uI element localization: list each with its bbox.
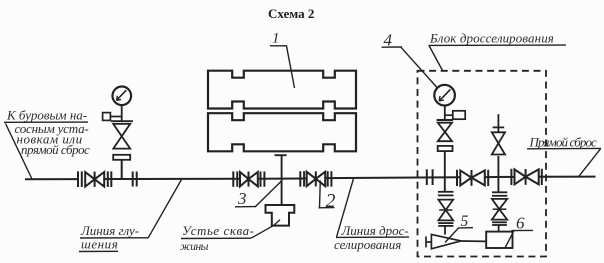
underline of label 6 (512, 229, 534, 231)
wire: kill line left segment (25, 178, 78, 180)
underline of Линия дрос- (336, 236, 409, 238)
label text: К буровым насосным установкам или прямой сброс (6, 107, 90, 157)
svg-text:прямой сброс: прямой сброс (21, 142, 90, 157)
pressure gauge (block) (434, 85, 455, 106)
svg-text:шения: шения (81, 237, 118, 252)
leader from label 2 to valve (319, 181, 322, 208)
underline of label 2 (319, 207, 335, 209)
dashed block boundary (блок дросселирования) (418, 71, 547, 257)
underline of Прямой сброс (527, 147, 601, 149)
leader from label 5 to wedge (445, 228, 459, 243)
leader from Блок дросселирования to block (429, 46, 443, 71)
flange rect on block gauge branch (438, 146, 453, 151)
leader from Линия глушения to kill line (148, 180, 182, 239)
underline of label 1 (270, 45, 287, 47)
valve B on choke line in block (457, 170, 488, 186)
wire: stem to gauge (121, 105, 123, 121)
flange pair below right branch valve (492, 222, 507, 225)
leader from label 6 to box (505, 231, 514, 248)
svg-text:1: 1 (272, 31, 280, 47)
underline of Блок дросселирования (429, 44, 567, 46)
label 2 (326, 190, 336, 212)
wire: choke discharge to item 6 (461, 240, 486, 242)
wire: wellhead between valves 3 and 2 (258, 178, 307, 180)
svg-text:Схема 2: Схема 2 (268, 6, 314, 21)
underline of Линия глу- (80, 237, 148, 239)
wire: block left branch vertical (444, 151, 446, 192)
valve 2 (choke side wellhead valve) (300, 171, 331, 186)
label 1 (272, 31, 280, 47)
flange rect on kill gauge branch (113, 155, 130, 160)
leader from label 1 to BOP (287, 46, 295, 88)
wire: wellhead vertical (281, 155, 283, 205)
leader from Устье скважины to wellhead (251, 220, 280, 239)
valve (vertical) on block gauge branch (438, 123, 452, 142)
wire: kill line valve-to-wellhead segment (104, 178, 240, 180)
label text: Линия дросселирования (334, 223, 409, 252)
flange pair below line on right branch (492, 192, 507, 196)
underline of label 4 (382, 46, 403, 48)
underline of label 5 (458, 227, 473, 229)
valve (vertical) on right branch above line (492, 132, 505, 154)
label text: Блок дросселирования (429, 30, 554, 45)
valve 3 (kill side wellhead valve) (233, 171, 264, 186)
underline of шения (79, 250, 118, 252)
valve (vertical) below line on left branch (438, 200, 453, 221)
fixed choke item 6 (box) (486, 232, 512, 248)
valve (vertical) on kill gauge branch (113, 124, 130, 149)
BOP stack lower preventer (208, 113, 356, 151)
adjustable choke item 5 (wedge) (426, 234, 461, 248)
valve (vertical) below line on right branch (492, 199, 507, 220)
flange bar above block gauge valve (437, 119, 453, 121)
wire: kill gauge branch riser (121, 160, 123, 179)
flange bar above right branch valve (493, 126, 505, 128)
leader from label 4 to gauge (401, 47, 437, 87)
label 5 (461, 213, 469, 230)
label 6 (516, 214, 525, 233)
wire: block right branch vertical (497, 156, 499, 192)
flange pair below left branch valve (438, 223, 453, 226)
pressure gauge (kill line) (113, 87, 132, 106)
label 4 (384, 30, 393, 49)
wire: inside block between valves (485, 176, 514, 178)
wire: stem to block gauge (444, 106, 446, 121)
flange pair below line on left branch (438, 192, 454, 196)
flange pair on choke line inside block (427, 169, 433, 185)
label text: Устье скважины (180, 223, 255, 253)
svg-text:Устье сква-: Устье сква- (182, 223, 255, 238)
title "Схема 2" (268, 6, 314, 21)
svg-text:2: 2 (326, 190, 336, 212)
cock square left of kill gauge stem (103, 113, 122, 121)
svg-text:Прямой сброс: Прямой сброс (529, 134, 598, 149)
valve V1 on kill line (78, 171, 111, 187)
cock square right of block gauge stem (445, 111, 465, 119)
wire: choke line from valve 2 to block valve (325, 176, 460, 179)
leader from left label to kill line (6, 124, 33, 180)
flange pair on kill line right of gauge branch (133, 172, 137, 187)
wire: stem to fixed choke (498, 225, 500, 232)
wire: right branch top stub (497, 114, 499, 132)
label text: Прямой сброс (529, 134, 598, 149)
svg-text:3: 3 (237, 189, 247, 208)
wellhead symbol (устье скважины) (266, 205, 295, 226)
flange bar above kill gauge valve (111, 120, 133, 122)
underline of label 3 (235, 206, 256, 208)
leader from Прямой сброс to discharge line (579, 149, 601, 177)
svg-text:селирования: селирования (334, 237, 401, 252)
svg-text:Линия глу-: Линия глу- (80, 223, 139, 238)
BOP stack upper preventer (item 1 box) (208, 71, 356, 109)
wire: stem to adjustable choke (444, 226, 446, 235)
underline of Устье сква- (181, 237, 251, 239)
svg-text:жины: жины (180, 241, 209, 253)
wire: direct discharge line right (539, 176, 596, 178)
wellhead tee bar (275, 154, 287, 156)
label 3 (237, 189, 247, 208)
underline of left label (4, 121, 88, 123)
label text: Линия глушения (80, 223, 139, 252)
valve C on choke line in block (511, 169, 541, 185)
leader from label 3 to junction (256, 181, 283, 207)
svg-text:Блок дросселирования: Блок дросселирования (429, 30, 554, 45)
leader from Линия дросселирования to choke line (337, 179, 354, 238)
